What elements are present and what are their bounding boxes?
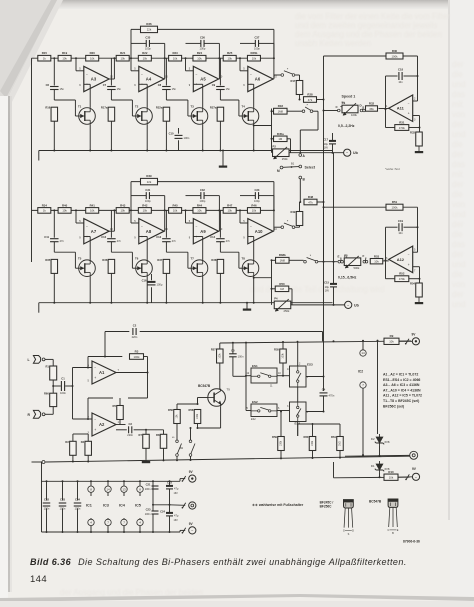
wire source to bus T1 xyxy=(89,124,91,150)
wire A2 output and C3 xyxy=(116,424,126,426)
capacitor C11 xyxy=(50,238,59,240)
wire plus input stage A3 xyxy=(84,83,90,85)
wire left vertical connecting chain rails xyxy=(31,58,33,262)
wire plus input stage A6 xyxy=(248,83,254,85)
svg-text:R49: R49 xyxy=(291,210,296,214)
svg-text:R45a: R45a xyxy=(277,132,284,136)
svg-text:Select: Select xyxy=(305,166,316,170)
capacitor C31 xyxy=(145,192,147,199)
svg-text:T3: T3 xyxy=(191,105,195,109)
resistor R17a xyxy=(108,107,115,121)
wire feedback vertical left chain2 xyxy=(130,182,132,211)
svg-text:R42: R42 xyxy=(142,203,148,207)
svg-text:C21: C21 xyxy=(146,482,151,486)
svg-text:5: 5 xyxy=(243,220,245,223)
op-amp A7 xyxy=(84,219,109,244)
svg-text:10k: 10k xyxy=(120,57,125,61)
svg-text:1M8: 1M8 xyxy=(278,110,284,114)
wire pin stubs IC3 xyxy=(107,481,109,486)
svg-text:−: − xyxy=(141,225,143,229)
wire R3 right down to A1 out xyxy=(144,356,148,358)
svg-text:−: − xyxy=(250,225,252,229)
svg-text:C12: C12 xyxy=(101,235,106,239)
wire right vertical to A11 xyxy=(417,56,419,101)
wire cap column C44 xyxy=(77,481,79,500)
svg-text:10n: 10n xyxy=(398,231,403,235)
wire R57 to collector xyxy=(219,363,221,389)
svg-text:100n: 100n xyxy=(44,507,50,511)
wire output stage A9 xyxy=(218,230,221,232)
svg-text:R55: R55 xyxy=(274,348,279,352)
svg-text:8: 8 xyxy=(139,487,141,491)
svg-text:*: * xyxy=(287,67,289,71)
op-amp A4 xyxy=(139,66,164,91)
wire plus input stage A9 xyxy=(193,236,202,238)
svg-text:100k: 100k xyxy=(351,113,357,117)
svg-text:500k: 500k xyxy=(354,266,360,270)
ground xyxy=(418,297,420,302)
svg-text:C: C xyxy=(336,105,339,109)
wire output stage A3 xyxy=(109,78,114,80)
svg-text:−: − xyxy=(346,150,349,155)
wire R58 bottom xyxy=(197,424,199,428)
svg-text:R24: R24 xyxy=(197,51,203,55)
svg-text:R61: R61 xyxy=(331,435,336,439)
svg-text:9: 9 xyxy=(134,84,136,87)
capacitor C12 xyxy=(107,238,116,240)
svg-text:R30: R30 xyxy=(392,49,398,53)
svg-text:A3: A3 xyxy=(91,77,97,82)
wire pin stubs IC5 xyxy=(139,481,141,486)
wire bus2 to Ub terminal xyxy=(291,304,345,306)
terminal bat0 xyxy=(189,502,196,509)
svg-text:7: 7 xyxy=(414,270,416,273)
wire base line T9 xyxy=(198,397,208,399)
resistor R58 xyxy=(194,410,201,424)
svg-text:ES2: ES2 xyxy=(252,400,258,404)
left margin strip xyxy=(0,96,8,607)
switch S2c xyxy=(338,260,341,263)
svg-text:ES1: ES1 xyxy=(252,364,258,368)
wire R48 right xyxy=(317,201,324,203)
svg-text:R19: R19 xyxy=(62,51,68,55)
svg-text:R22a: R22a xyxy=(156,106,163,110)
connector contact xyxy=(183,503,186,508)
wire x324 vertical lower part xyxy=(323,202,325,262)
svg-text:100k: 100k xyxy=(196,413,199,419)
svg-text:E: E xyxy=(338,255,340,259)
svg-text:C8: C8 xyxy=(158,83,162,87)
wire C1 leads xyxy=(53,385,61,387)
svg-text:IC5: IC5 xyxy=(135,504,141,508)
wire ES3 bottom to ES4 top xyxy=(297,387,299,402)
switch select arm xyxy=(299,165,302,168)
svg-text:2: 2 xyxy=(414,98,416,101)
svg-text:R4: R4 xyxy=(81,440,85,444)
svg-text:A2: A2 xyxy=(99,422,105,427)
wire R7 bottom to ground xyxy=(145,448,147,459)
svg-text:10k: 10k xyxy=(143,209,148,213)
svg-text:5: 5 xyxy=(79,220,81,223)
wire input drop stage A3 xyxy=(75,58,77,71)
transistor T3 xyxy=(191,108,208,125)
resistor R38b xyxy=(276,257,290,263)
wire R51 feedback line xyxy=(324,206,418,208)
svg-text:470n: 470n xyxy=(329,393,335,397)
package drawing BC547B xyxy=(388,499,398,507)
resistor R43 xyxy=(116,208,129,214)
svg-text:C37: C37 xyxy=(254,36,259,40)
wire select column vertical xyxy=(271,109,273,153)
svg-text:9: 9 xyxy=(189,84,191,87)
svg-text:1: 1 xyxy=(386,105,388,108)
svg-text:R15: R15 xyxy=(42,51,48,55)
svg-text:12: 12 xyxy=(247,372,250,375)
wire R31 right junction to R33 xyxy=(409,127,420,129)
wire negative rail xyxy=(334,476,410,479)
svg-text:IC1: IC1 xyxy=(86,504,92,508)
svg-text:R48: R48 xyxy=(308,195,314,199)
svg-text:R8: R8 xyxy=(156,433,160,437)
resistor R47 xyxy=(223,208,236,214)
svg-text:S: S xyxy=(348,533,350,536)
svg-text:5: 5 xyxy=(243,68,245,71)
wire lower cap drop A8 xyxy=(110,210,112,237)
svg-text:R37: R37 xyxy=(157,258,162,262)
svg-text:47n: 47n xyxy=(226,239,231,243)
resistor R44 xyxy=(193,208,206,214)
resistor R56 xyxy=(174,410,181,424)
svg-text:∗∗ wahlweise mit Fußschalter: ∗∗ wahlweise mit Fußschalter xyxy=(252,503,304,507)
wire output stage A8 xyxy=(163,230,166,232)
wire L jack to R1 xyxy=(45,358,53,360)
transistor T6 xyxy=(136,260,153,277)
wire C17 bottom to bus xyxy=(332,144,334,153)
svg-text:5: 5 xyxy=(247,407,249,410)
svg-text:250k: 250k xyxy=(284,309,290,313)
svg-text:R: R xyxy=(28,413,31,417)
wire source to bus T3 xyxy=(202,124,204,150)
resistor R15 xyxy=(38,55,51,61)
pin 7 xyxy=(360,382,366,388)
svg-text:100p: 100p xyxy=(254,47,260,51)
op-amp A3 xyxy=(84,66,109,91)
svg-text:T1: T1 xyxy=(78,105,82,109)
svg-text:5: 5 xyxy=(88,380,90,383)
svg-text:−: − xyxy=(196,72,198,76)
wire 1M8 to switch chain2 xyxy=(272,259,276,261)
svg-text:R51: R51 xyxy=(392,200,398,204)
resistor R24 xyxy=(193,55,206,61)
wire lower cap to mid A3 xyxy=(53,90,55,101)
resistor R26 xyxy=(141,26,158,32)
svg-text:47n: 47n xyxy=(172,239,177,243)
svg-text:T8: T8 xyxy=(242,257,246,261)
svg-text:C24: C24 xyxy=(160,509,165,513)
resistor R4 xyxy=(85,441,92,455)
svg-text:E: E xyxy=(397,529,399,532)
svg-text:T9: T9 xyxy=(227,388,231,392)
wire to battery terminals xyxy=(179,479,181,482)
wire input drop stage A9 xyxy=(185,210,187,223)
svg-text:87906-6-36: 87906-6-36 xyxy=(403,540,420,544)
wire neg terminal xyxy=(179,530,181,532)
svg-text:4: 4 xyxy=(90,521,92,525)
svg-text:5: 5 xyxy=(79,68,81,71)
potentiometer P2 xyxy=(273,149,290,157)
svg-text:47μ: 47μ xyxy=(174,514,179,518)
wire IC2 pin14 stub xyxy=(362,341,364,350)
resistor R21 xyxy=(116,55,129,61)
transistor T5 xyxy=(79,260,96,277)
capacitor C32 xyxy=(200,192,202,199)
resistor R45 xyxy=(169,208,182,214)
svg-text:100k: 100k xyxy=(134,355,141,359)
wire select column vertical chain2 xyxy=(271,260,273,305)
svg-text:D: D xyxy=(352,529,354,532)
wire right vertical to A12 xyxy=(417,207,419,252)
svg-text:5: 5 xyxy=(414,249,416,252)
wire source to bus T8 xyxy=(253,277,255,303)
wire output stage A5 xyxy=(218,78,221,80)
svg-text:R47: R47 xyxy=(227,203,233,207)
svg-text:10n: 10n xyxy=(398,80,403,84)
svg-text:10k: 10k xyxy=(120,209,125,213)
svg-text:T7: T7 xyxy=(191,257,195,261)
svg-text:*: * xyxy=(287,220,289,224)
transistor T4 xyxy=(242,108,259,125)
wire lower cap to mid A10 xyxy=(219,242,221,253)
wire IC supply bottom rail xyxy=(42,531,181,533)
switch footswitch a xyxy=(176,440,179,443)
svg-text:R26: R26 xyxy=(146,22,152,26)
svg-text:9: 9 xyxy=(134,236,136,239)
svg-text:+: + xyxy=(408,263,410,267)
wire output stage A6 xyxy=(272,78,275,80)
svg-text:R58: R58 xyxy=(189,408,194,412)
svg-text:10k: 10k xyxy=(143,57,148,61)
switch S2a xyxy=(281,226,284,229)
wire A11 pin2 xyxy=(413,100,418,102)
svg-text:R36: R36 xyxy=(102,258,107,262)
svg-text:R35: R35 xyxy=(45,258,50,262)
wire plus input stage A8 xyxy=(139,236,147,238)
pin 4 xyxy=(88,519,94,525)
svg-text:100p: 100p xyxy=(200,199,206,203)
svg-text:10k: 10k xyxy=(90,209,95,213)
resistor R40 xyxy=(58,208,71,214)
capacitor C17 xyxy=(329,140,336,142)
wire lower cap drop A10 xyxy=(219,210,221,237)
terminal Ub1 xyxy=(344,149,351,156)
wire ES left column xyxy=(245,343,247,376)
wire A11 minus node vertical xyxy=(385,76,387,128)
wire res to bus A8 xyxy=(110,273,112,302)
terminal Ub2 xyxy=(345,301,352,308)
svg-text:6: 6 xyxy=(386,257,388,260)
svg-text:−: − xyxy=(250,72,252,76)
node select B xyxy=(299,176,302,179)
svg-text:9: 9 xyxy=(243,84,245,87)
svg-text:10k: 10k xyxy=(389,476,394,480)
capacitor C14 xyxy=(216,238,225,240)
svg-text:R16: R16 xyxy=(45,106,50,110)
capacitor C3 xyxy=(128,426,130,433)
resistor R60 xyxy=(50,393,57,406)
pin 8 xyxy=(137,486,143,492)
capacitor C9 xyxy=(216,86,225,88)
wire B down to R48 line xyxy=(299,179,301,202)
capacitor C36 xyxy=(200,40,202,47)
resistor R46 xyxy=(247,208,260,214)
wire R10 to terminal xyxy=(398,476,412,478)
wire node to A2 xyxy=(72,386,74,419)
svg-text:R21: R21 xyxy=(120,51,126,55)
svg-text:C43: C43 xyxy=(60,498,65,502)
svg-text:250k: 250k xyxy=(282,157,288,161)
resistor R55 xyxy=(280,349,287,363)
svg-text:A11 , A12 = IC5 = TL072: A11 , A12 = IC5 = TL072 xyxy=(383,394,422,398)
wire R53 to A12 input xyxy=(383,260,389,262)
resistor R27a xyxy=(217,107,224,121)
pin 13 xyxy=(121,486,127,492)
svg-text:R5: R5 xyxy=(113,404,117,408)
capacitor C42 xyxy=(43,502,51,504)
svg-text:A9: A9 xyxy=(200,229,206,234)
connector contact xyxy=(183,528,186,533)
node input contact xyxy=(42,461,45,464)
resistor R18 xyxy=(274,108,288,114)
terminal +9V xyxy=(412,338,419,345)
wire plus input stage A7 xyxy=(84,236,90,238)
svg-text:A7: A7 xyxy=(91,229,97,234)
svg-text:R23: R23 xyxy=(172,51,178,55)
svg-text:C: C xyxy=(387,529,389,532)
capacitor C6 xyxy=(50,86,59,88)
svg-text:ES2: ES2 xyxy=(251,418,256,421)
wire switch to A contact xyxy=(313,110,318,112)
wire lower cap drop A9 xyxy=(165,210,167,237)
svg-text:D2: D2 xyxy=(371,437,375,441)
wire switch to E line xyxy=(318,261,338,263)
svg-text:10: 10 xyxy=(278,372,281,375)
resistor R5 xyxy=(117,406,124,420)
resistor R31 xyxy=(395,125,409,131)
svg-text:B: B xyxy=(392,532,394,535)
wire gate drop A4 xyxy=(131,100,133,116)
capacitor C4 xyxy=(323,389,325,391)
wire plus input stage A5 xyxy=(193,83,202,85)
capacitor C43 xyxy=(59,502,67,504)
svg-text:A11: A11 xyxy=(397,106,405,111)
wire C1 to A1 minus xyxy=(72,368,74,387)
wire cap C37 leads xyxy=(240,42,255,44)
svg-text:13: 13 xyxy=(122,487,126,491)
capacitor C1 xyxy=(60,381,62,391)
wire gate drop A10 xyxy=(238,252,240,268)
ground xyxy=(418,146,420,151)
svg-text:F: F xyxy=(363,254,365,258)
resistor R53 xyxy=(370,259,383,264)
capacitor C5 xyxy=(229,353,237,355)
wire A11 pin3 to R31 right xyxy=(413,115,420,117)
svg-text:100k: 100k xyxy=(282,353,285,359)
svg-text:100n: 100n xyxy=(238,354,244,358)
resistor R2 xyxy=(70,441,77,455)
svg-text:A: A xyxy=(303,154,306,158)
resistor R32 xyxy=(366,106,378,111)
analog switch ES3 xyxy=(290,366,307,387)
wire A12 pin5 xyxy=(413,251,418,253)
capacitor C15 xyxy=(330,283,337,285)
wire mid terminal xyxy=(170,504,186,507)
caption xyxy=(30,557,460,567)
svg-text:14: 14 xyxy=(106,487,110,491)
resistor R19 xyxy=(58,55,71,61)
svg-text:1: 1 xyxy=(118,421,120,424)
analog switch ES1 xyxy=(251,368,277,383)
svg-text:7: 7 xyxy=(118,369,120,372)
wire lower cap to mid A5 xyxy=(165,90,167,101)
wire input drop stage A10 xyxy=(239,210,241,223)
wire main positive vertical x377 xyxy=(377,341,379,434)
svg-text:C3: C3 xyxy=(128,422,132,426)
wire ES1-ES3 link xyxy=(277,375,290,377)
svg-text:100n: 100n xyxy=(75,507,81,511)
svg-text:IC2: IC2 xyxy=(358,370,363,374)
svg-text:470k: 470k xyxy=(399,277,406,281)
wire D1 bottom to negative rail xyxy=(379,473,381,477)
svg-text:10k: 10k xyxy=(197,57,202,61)
op-amp A2 xyxy=(92,413,116,436)
svg-text:P4: P4 xyxy=(274,297,278,301)
svg-text:C33: C33 xyxy=(254,188,259,192)
wire +9V top line xyxy=(220,341,411,343)
svg-text:M: M xyxy=(277,169,280,173)
wire bus1 ground stub xyxy=(222,151,224,166)
svg-text:5: 5 xyxy=(134,68,136,71)
wire R18 left xyxy=(272,110,274,112)
svg-text:T2: T2 xyxy=(135,105,139,109)
wire lower cap to mid A6 xyxy=(219,90,221,101)
wire feedback vertical left chain1 xyxy=(130,29,132,58)
wire ES3 top xyxy=(297,342,299,366)
terminal bat+ xyxy=(189,475,196,482)
resistor R17 xyxy=(296,81,303,95)
resistor R16 xyxy=(51,107,58,121)
svg-text:R40: R40 xyxy=(62,203,68,207)
wire negative rail left part xyxy=(333,462,335,478)
wire D2 to rail xyxy=(379,446,381,456)
svg-text:R25: R25 xyxy=(227,51,233,55)
wire bus2 ground stub xyxy=(246,303,248,309)
svg-text:C15: C15 xyxy=(324,280,329,284)
wire lower cap drop A6 xyxy=(219,58,221,85)
potentiometer P3 xyxy=(344,258,361,266)
wire C19 leads xyxy=(386,226,398,228)
svg-text:C13: C13 xyxy=(156,235,161,239)
op-amp A6 xyxy=(248,66,273,91)
svg-text:R45: R45 xyxy=(172,203,178,207)
svg-text:47k: 47k xyxy=(308,98,313,102)
svg-text:C19: C19 xyxy=(398,219,403,223)
wire A2 feedback xyxy=(87,398,89,419)
svg-text:Speed 1: Speed 1 xyxy=(342,95,356,99)
svg-text:C18: C18 xyxy=(398,68,403,72)
transistor T1 xyxy=(79,108,96,125)
wire pin stubs IC1 xyxy=(90,481,92,486)
op-amp A11 xyxy=(389,95,413,122)
